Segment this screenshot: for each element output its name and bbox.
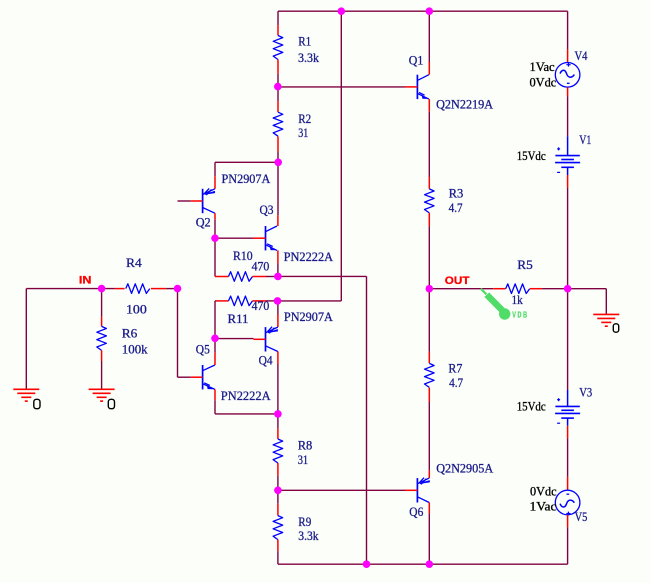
wire node to Q3 collector bbox=[277, 162, 279, 215]
junction top rail 2 bbox=[426, 7, 434, 15]
resistor R4 bbox=[115, 288, 125, 290]
wire R2 to node bbox=[277, 152, 279, 163]
junction Q4-Q5 node bbox=[274, 410, 282, 418]
wire vertical1 from top rail bbox=[340, 11, 342, 301]
svg-text:31: 31 bbox=[298, 453, 308, 467]
wire V4 to V1 bbox=[567, 96, 569, 136]
resistor R2 bbox=[277, 87, 279, 102]
wire vertical2 to bottom rail bbox=[366, 276, 368, 564]
wire R1 to node bbox=[277, 74, 279, 87]
wire left ground drop bbox=[25, 289, 27, 390]
svg-text:Q2N2219A: Q2N2219A bbox=[436, 98, 493, 112]
svg-text:PN2907A: PN2907A bbox=[284, 310, 333, 324]
junction bottom rail 1 bbox=[363, 560, 371, 568]
wire R11 left to Q5 base node bbox=[214, 301, 216, 339]
wire Q2-collector node to R10 bbox=[214, 238, 216, 276]
wire node to Q2 branch bbox=[215, 161, 278, 163]
svg-text:PN2907A: PN2907A bbox=[222, 172, 271, 186]
wire Q5 base net bbox=[178, 376, 191, 378]
svg-text:Q5: Q5 bbox=[196, 343, 210, 357]
wire OUT net right bbox=[542, 288, 568, 290]
wire R10 node to vertical2 bbox=[278, 275, 367, 277]
svg-text:OUT: OUT bbox=[445, 275, 470, 287]
svg-text:R11: R11 bbox=[228, 312, 249, 326]
svg-text:0Vdc: 0Vdc bbox=[530, 76, 557, 90]
wire Q1 collector to top rail bbox=[428, 11, 430, 62]
junction OUT right rail bbox=[564, 285, 572, 293]
svg-text:Q4: Q4 bbox=[259, 354, 274, 368]
junction bottom rail 2 bbox=[426, 560, 434, 568]
junction Q5 base column bbox=[211, 335, 219, 343]
transistor Q4 bbox=[265, 327, 267, 351]
svg-text:R1: R1 bbox=[298, 34, 311, 48]
wire Q1 emitter to R3 bbox=[428, 112, 430, 177]
resistor R6 bbox=[101, 289, 103, 317]
wire R1 top stub bbox=[277, 11, 279, 25]
wire Q2 collector to node bbox=[214, 219, 216, 238]
svg-text:100k: 100k bbox=[122, 343, 149, 357]
resistor R10 bbox=[215, 276, 229, 278]
resistor R3 bbox=[428, 176, 430, 178]
wire Q4 base net bbox=[215, 338, 254, 340]
svg-text:IN: IN bbox=[79, 275, 92, 287]
svg-text:R8: R8 bbox=[298, 438, 313, 452]
svg-text:0Vdc: 0Vdc bbox=[530, 484, 557, 498]
svg-text:470: 470 bbox=[252, 299, 270, 313]
wire right rail upper bbox=[567, 11, 569, 49]
wire Q5 collector from base node bbox=[214, 339, 216, 353]
wire Q4 collector to node bbox=[277, 364, 279, 414]
svg-text:1k: 1k bbox=[512, 293, 524, 307]
svg-text:Q3: Q3 bbox=[260, 203, 274, 217]
transistor Q3 bbox=[265, 226, 267, 250]
svg-text:100: 100 bbox=[126, 303, 147, 317]
svg-text:3.3k: 3.3k bbox=[298, 529, 319, 543]
wire Q6 base net bbox=[278, 489, 405, 491]
wire IN net bbox=[26, 288, 115, 290]
resistor R11 bbox=[215, 300, 217, 302]
wire Q5 emitter to node bbox=[214, 400, 216, 414]
wire Q3 emitter to node bbox=[277, 263, 279, 276]
wire Q4 emitter from R11 node bbox=[277, 301, 279, 315]
voltage source V1 bbox=[567, 136, 569, 155]
svg-text:V5: V5 bbox=[575, 510, 588, 524]
svg-text:R9: R9 bbox=[298, 515, 311, 529]
resistor R9 bbox=[277, 490, 279, 503]
resistor R1 bbox=[277, 25, 279, 35]
junction R10 right bbox=[274, 273, 282, 281]
svg-text:1Vac: 1Vac bbox=[530, 499, 557, 513]
junction R1-R2 bbox=[274, 83, 282, 91]
wire V1 to OUT node bbox=[567, 188, 569, 289]
junction OUT left bbox=[426, 285, 434, 293]
junction R8-R9 bbox=[274, 487, 282, 495]
svg-text:470: 470 bbox=[252, 259, 270, 273]
svg-text:R2: R2 bbox=[298, 112, 311, 126]
svg-text:R6: R6 bbox=[122, 327, 138, 341]
wire Q1 base net bbox=[278, 86, 405, 88]
svg-text:1Vac: 1Vac bbox=[530, 60, 556, 74]
svg-text:31: 31 bbox=[298, 126, 308, 140]
svg-text:R7: R7 bbox=[448, 362, 462, 376]
probe marker VDB bbox=[481, 289, 511, 320]
svg-text:3.3k: 3.3k bbox=[298, 51, 320, 65]
svg-text:R10: R10 bbox=[233, 249, 253, 263]
wire V3 to V5 bbox=[567, 438, 569, 477]
ground 0 left bbox=[13, 388, 39, 390]
svg-text:R4: R4 bbox=[126, 256, 143, 270]
svg-text:V1: V1 bbox=[579, 133, 591, 147]
wire top rail bbox=[278, 10, 568, 12]
svg-text:Q1: Q1 bbox=[409, 54, 424, 68]
wire Q2 base net bbox=[178, 200, 191, 202]
svg-text:PN2222A: PN2222A bbox=[284, 250, 334, 264]
transistor Q6 bbox=[416, 478, 418, 502]
resistor R8 bbox=[277, 414, 279, 429]
junction IN R6 bbox=[98, 285, 106, 293]
junction R11 right bbox=[274, 297, 282, 305]
transistor Q1 bbox=[416, 75, 418, 99]
junction IN base column bbox=[174, 285, 182, 293]
wire OUT node to V3 bbox=[567, 289, 569, 390]
wire R7 to Q6 emitter bbox=[428, 402, 430, 471]
svg-text:VDB: VDB bbox=[512, 310, 529, 320]
resistor R5 bbox=[493, 288, 505, 290]
svg-text:R5: R5 bbox=[517, 258, 533, 272]
svg-text:R3: R3 bbox=[449, 186, 464, 200]
wire V5 to bottom rail bbox=[567, 527, 569, 564]
svg-text:4.7: 4.7 bbox=[449, 376, 463, 390]
svg-text:Q2: Q2 bbox=[196, 216, 211, 230]
svg-text:PN2222A: PN2222A bbox=[221, 389, 271, 403]
junction Q2 collector bbox=[211, 234, 219, 242]
svg-text:V4: V4 bbox=[575, 49, 589, 63]
transistor Q5 bbox=[202, 365, 204, 389]
transistor Q2 bbox=[202, 189, 204, 213]
wire out node to ground bbox=[568, 288, 607, 290]
wire Q3 base net bbox=[215, 237, 254, 239]
wire R3 to OUT node bbox=[428, 226, 430, 289]
svg-text:Q2N2905A: Q2N2905A bbox=[436, 461, 493, 475]
voltage source V4 bbox=[567, 49, 569, 63]
wire R4 to base column bbox=[166, 288, 177, 290]
svg-text:V3: V3 bbox=[579, 386, 592, 400]
junction R2 bottom bbox=[274, 159, 282, 167]
svg-text:15Vdc: 15Vdc bbox=[517, 400, 546, 414]
wire bottom rail bbox=[278, 563, 568, 565]
resistor R7 bbox=[428, 289, 430, 352]
junction top rail 1 bbox=[338, 7, 346, 15]
ground 0 right bbox=[593, 313, 619, 315]
svg-text:Q6: Q6 bbox=[409, 505, 423, 519]
wire OUT net left bbox=[429, 288, 493, 290]
wire Q6 collector to bottom rail bbox=[428, 514, 430, 565]
voltage source V3 bbox=[567, 390, 569, 406]
svg-text:4.7: 4.7 bbox=[449, 201, 463, 215]
wire vertical1 to R11 node bbox=[278, 300, 341, 302]
svg-text:15Vdc: 15Vdc bbox=[517, 149, 546, 163]
voltage source V5 bbox=[567, 477, 569, 490]
ground 0 R6 bbox=[89, 388, 115, 390]
